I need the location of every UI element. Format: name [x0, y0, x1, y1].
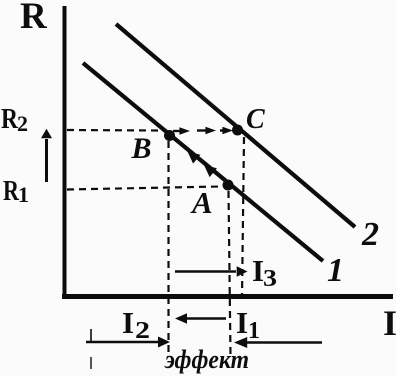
svg-text:I: I	[236, 305, 248, 340]
svg-text:A: A	[190, 185, 213, 220]
svg-text:2: 2	[17, 111, 28, 136]
svg-text:2: 2	[135, 318, 150, 344]
svg-text:I: I	[383, 303, 396, 343]
svg-text:2: 2	[361, 216, 379, 253]
svg-text:1: 1	[18, 182, 29, 207]
svg-text:эффект: эффект	[164, 345, 249, 374]
svg-text:R: R	[20, 0, 48, 37]
svg-text:B: B	[131, 132, 152, 165]
svg-text:3: 3	[263, 266, 277, 292]
svg-text:1: 1	[327, 252, 344, 289]
svg-text:1: 1	[248, 318, 260, 344]
svg-text:I: I	[122, 305, 134, 340]
svg-text:C: C	[246, 104, 265, 135]
